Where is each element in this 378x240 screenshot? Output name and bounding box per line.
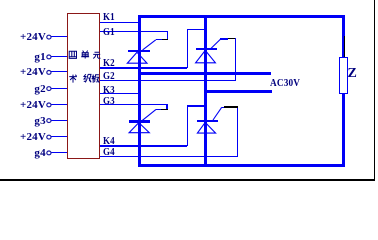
wire terminal row4 to block (51, 88, 68, 89)
terminal circle row4 (47, 87, 51, 91)
gate loop V1 drop (vertical from G1) (167, 31, 168, 40)
label g1 (34, 53, 45, 61)
wire terminal row2 to block (51, 56, 68, 57)
right drop wire to load (thick) (342, 15, 345, 58)
bridge right leg (thick vertical) (204, 15, 207, 167)
label +24V (row7) (20, 133, 46, 141)
label g3 (34, 117, 45, 125)
wire terminal row3 to block (51, 71, 68, 72)
block text 板 (92, 75, 100, 83)
thyristor V3 cathode bar (129, 120, 151, 123)
thyristor V3 triangle (129, 123, 149, 133)
wire G3 (100, 104, 167, 105)
gate loop V1 horizontal black part (162, 39, 169, 40)
bridge left leg (thick vertical) (138, 15, 141, 167)
thyristor V4 triangle (197, 122, 215, 133)
thyristor V3 gate diagonal (142, 109, 156, 120)
gate loop V4 horizontal blue part (222, 107, 225, 108)
block text 元 (93, 52, 100, 58)
gate loop V3 drop (vertical from G3) (166, 104, 167, 110)
gate loop V3 horizontal black part (161, 109, 168, 110)
wire G1 (100, 31, 168, 32)
black overlay segment on load wire (344, 36, 345, 58)
block text 级 (84, 74, 91, 82)
terminal circle row2 (47, 55, 51, 59)
block text 术 (69, 75, 77, 83)
gate loop V2 horizontal blue part (220, 38, 228, 39)
gate loop V4 horizontal black part (224, 106, 238, 107)
wire K2 (100, 67, 187, 68)
block text 四 (69, 51, 76, 58)
label K2 (103, 59, 115, 67)
terminal circle row6 (47, 119, 51, 123)
terminal circle row8 (47, 151, 51, 155)
label G4 (103, 148, 115, 156)
wire load bottom (thick) (342, 94, 345, 167)
frame border bottom (black horizontal) (0, 179, 375, 181)
label g4 (34, 149, 45, 157)
wire terminal row6 to block (51, 120, 68, 121)
thyristor V2 gate diagonal (211, 39, 221, 49)
thyristor V2 triangle (196, 50, 216, 62)
thyristor V1 cathode bar (128, 50, 150, 53)
terminal circle row7 (47, 135, 51, 139)
wire terminal row5 to block (51, 104, 68, 105)
block text 单 (81, 51, 89, 59)
thyristor V2 cathode bar (196, 48, 217, 51)
load Z rectangle (339, 57, 348, 94)
AC bus lower (thick) (204, 90, 272, 93)
wire terminal row7 to block (51, 136, 68, 137)
wire G4 (100, 156, 238, 157)
gate loop V1 horizontal blue part (156, 39, 162, 40)
wire terminal row8 to block (51, 152, 68, 153)
gate loop V4 riser (vertical down to G4) (237, 107, 238, 157)
label K3 (103, 86, 115, 94)
K2 link top horizontal (187, 29, 206, 30)
wire G2 (100, 80, 236, 81)
label +24V (row3) (20, 68, 46, 76)
thyristor V1 triangle (127, 52, 147, 63)
wire K1 (100, 22, 138, 23)
K4 link top horizontal (187, 105, 206, 106)
terminal circle row1 (47, 35, 51, 39)
terminal circle row3 (47, 71, 51, 75)
label K1 (103, 13, 115, 21)
label G1 (103, 28, 115, 36)
frame border right (black vertical) (374, 0, 376, 181)
bridge top edge (thick) (138, 15, 346, 18)
label K4 (103, 137, 115, 145)
unit block 四单元末级板 (maroon rectangle) (67, 13, 100, 159)
wire K4 (100, 145, 187, 146)
terminal circle row5 (47, 103, 51, 107)
wire terminal row1 to block (51, 36, 68, 37)
thyristor V4 cathode bar (197, 120, 218, 123)
K4 link riser (vertical) (187, 105, 188, 146)
label G2 (103, 72, 115, 80)
label Z (348, 70, 357, 78)
K2 link riser (vertical) (187, 29, 188, 68)
label g2 (34, 85, 45, 93)
thyristor V1 gate diagonal (143, 40, 156, 50)
gate loop V3 horizontal blue part (156, 109, 162, 110)
bridge bottom edge (thick) (138, 164, 346, 167)
thyristor V4 gate diagonal (213, 107, 222, 120)
label +24V (row1) (20, 33, 46, 41)
gate loop V2 riser (vertical down to G2) (235, 38, 236, 81)
label +24V (row5) (20, 101, 46, 109)
wire K3 (100, 93, 139, 94)
label AC30V (270, 80, 300, 88)
gate loop V2 horizontal black part (228, 38, 235, 39)
AC bus upper (thick) (138, 72, 271, 75)
label G3 (103, 97, 115, 105)
